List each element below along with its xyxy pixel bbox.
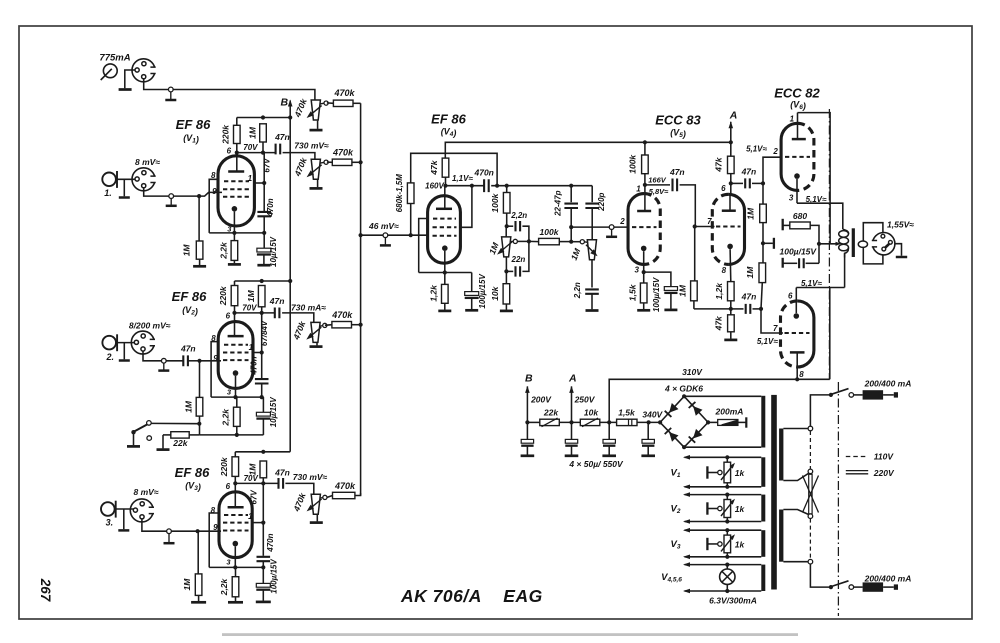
heater V2 wiper circle — [718, 506, 722, 510]
1M bottom lead V2 — [261, 307, 263, 313]
heater V1 pot arrowhead — [730, 463, 735, 469]
output node T-bar wire — [763, 242, 773, 244]
svg-text:680k-1,5M: 680k-1,5M — [395, 174, 404, 213]
grid input wire V3 — [198, 530, 221, 532]
bridge left vertex — [658, 420, 662, 424]
wire wiper P1 to R 470k — [327, 102, 334, 104]
tap3 wire — [783, 510, 808, 515]
470k V3 to bus — [355, 493, 361, 496]
220k top lead V2 — [234, 281, 236, 286]
junction g2 V2 — [260, 350, 264, 354]
psu chain 1.5k-bridge — [637, 421, 660, 423]
svg-text:7: 7 — [773, 324, 778, 333]
svg-text:2,2k: 2,2k — [218, 241, 228, 260]
heater V2 bottom wire — [685, 521, 762, 523]
svg-text:1: 1 — [249, 343, 254, 352]
100k top lead — [506, 186, 508, 193]
tap1 wire — [783, 428, 808, 430]
svg-text:1: 1 — [790, 114, 795, 123]
g2 riser V1 — [254, 182, 264, 184]
junction g2 V1 — [262, 181, 266, 185]
svg-text:A: A — [729, 109, 738, 121]
svg-text:B: B — [281, 96, 289, 108]
grid input wire V1 — [199, 192, 222, 196]
resistor 680 — [790, 222, 810, 229]
cathode lead V6b — [795, 288, 797, 314]
chassis boundary upper — [828, 109, 830, 379]
resistor 1M V3 — [260, 461, 267, 478]
1M V6a bottom lead — [762, 223, 764, 244]
resistor 470k (V1 lower) — [332, 159, 352, 165]
47n to grid V2 — [188, 360, 200, 362]
heater V3 wiper circle — [718, 542, 722, 546]
junction 2.2k bottom V2 — [235, 433, 239, 437]
svg-text:1k: 1k — [735, 504, 746, 514]
220k top lead V3 — [234, 452, 236, 457]
heater V3 pot arrow — [721, 536, 734, 552]
jack symbol input 1 — [102, 171, 117, 188]
ground below P3 — [310, 345, 323, 348]
wiper wire volume pot — [571, 241, 580, 243]
heater V2 pot arrowhead — [730, 499, 735, 505]
resistor 470k (V3) — [333, 492, 355, 498]
wiper of 1M pot — [513, 239, 517, 243]
junction cathode/2.2k V1 — [232, 231, 236, 235]
svg-text:730 mV≈: 730 mV≈ — [293, 472, 328, 482]
680k bottom lead — [410, 204, 412, 236]
cathode lead V5b — [729, 249, 732, 281]
heater V1 pot arrow — [721, 465, 734, 481]
ground below jack 3 — [118, 529, 129, 532]
ground below 10k — [500, 310, 513, 313]
tube V5b ECC83 (dashed left) — [712, 194, 744, 264]
2.2k bottom lead V2 — [236, 426, 238, 435]
P3 bottom to ground — [316, 343, 318, 346]
junction 1M top V2 — [260, 279, 264, 283]
ground below 100u V3 — [256, 601, 271, 604]
22k right lead — [189, 434, 199, 436]
resistor 47k V4 anode — [442, 158, 449, 177]
svg-text:2,2k: 2,2k — [220, 408, 230, 427]
chassis boundary lower — [837, 382, 839, 616]
arrowhead B bus — [288, 100, 293, 107]
arrow of 1M pot — [500, 242, 512, 253]
220k bottom lead V3 — [234, 476, 236, 483]
svg-text:1M: 1M — [247, 126, 257, 139]
svg-text:1M: 1M — [745, 266, 755, 279]
svg-text:67/84V: 67/84V — [260, 320, 269, 346]
heater V3 pot bottom junction — [725, 555, 729, 559]
arrow of P4 — [309, 499, 321, 509]
svg-text:100µ/15V: 100µ/15V — [269, 559, 278, 594]
2.2k top lead V3 — [235, 567, 237, 576]
1M V6a top lead — [762, 183, 764, 204]
svg-text:680: 680 — [793, 211, 807, 221]
g2 riser V4 — [460, 186, 472, 228]
resistor 220k V2 — [231, 286, 238, 306]
svg-text:8: 8 — [799, 370, 804, 379]
B+ riser to output stage — [829, 288, 831, 380]
arrowhead P1 — [307, 111, 314, 118]
junction grid 1M V3 — [196, 529, 200, 533]
fb wire to 680 — [783, 224, 790, 226]
svg-text:220k: 220k — [218, 285, 228, 306]
svg-text:70V: 70V — [242, 303, 257, 312]
svg-text:166V: 166V — [648, 176, 667, 185]
ground below 22k — [157, 448, 170, 451]
wiper P3 to 470k — [325, 324, 332, 327]
heater V1 wiper circle — [718, 470, 722, 474]
heater V2 top arrow — [683, 492, 690, 497]
mains cord bottom — [883, 586, 894, 588]
1M grid lead V3 — [197, 531, 199, 574]
g2 vertical V3 (67V) — [262, 483, 264, 555]
pin6 lead V5b — [729, 194, 731, 210]
ground below output DIN — [896, 256, 907, 259]
resistor 220k V1 — [234, 125, 241, 143]
wiper stem P3 — [319, 325, 323, 328]
100k-h right lead — [559, 241, 571, 243]
junction anode node 220k V3 — [233, 481, 237, 485]
junction anode V5b — [729, 181, 733, 185]
junction anode node/1M — [261, 151, 265, 155]
junction V6b anode/310V bus — [795, 377, 799, 381]
pin 6 lead V2 — [234, 313, 236, 336]
psu filter cap 4 50u/550V — [642, 439, 654, 445]
V1 supply wire — [237, 117, 290, 119]
arrow of P2 — [309, 165, 321, 175]
junction g2 riser V4 — [470, 184, 474, 188]
P4 bottom to ground — [316, 515, 318, 522]
capacitor 47n V1 out — [276, 144, 281, 155]
cathode lead V5a — [643, 251, 645, 272]
svg-text:6: 6 — [788, 292, 793, 301]
secondary top lead — [863, 223, 883, 242]
anode of V2 — [228, 335, 244, 338]
1M V5b bottom lead — [693, 301, 695, 309]
svg-text:3: 3 — [634, 265, 639, 274]
capacitor 470n coupling V4 — [484, 179, 489, 192]
junction cathode V5a — [642, 270, 646, 274]
heater V456 top arrow — [683, 562, 690, 567]
svg-text:200/400 mA: 200/400 mA — [864, 379, 912, 389]
svg-text:EF 86: EF 86 — [431, 112, 466, 127]
mains switch lever bottom — [831, 581, 848, 587]
output DIN pin top — [881, 234, 885, 238]
310V bus — [609, 379, 830, 422]
svg-text:100µ/15V: 100µ/15V — [478, 274, 487, 309]
lamp bottom junction — [725, 589, 729, 593]
g3 bracket V1 — [209, 179, 218, 233]
legend 110V dashed — [846, 456, 868, 458]
g3 bracket V3 — [209, 513, 219, 567]
g2 riser V2 — [253, 352, 262, 354]
grid row V6b — [785, 332, 810, 334]
capacitor 10u/15V V1 — [257, 248, 271, 254]
junction cathode V5b — [729, 307, 733, 311]
resistor 1M grid V2 — [196, 397, 203, 416]
470n bottom lead V2 — [261, 384, 263, 398]
grid g1 row V2 — [224, 344, 248, 346]
pin 6 lead V4 — [444, 186, 446, 209]
1M pot bottom lead — [505, 257, 507, 272]
psu chain 22k-10k — [559, 421, 580, 423]
wire V1 output to P2 — [283, 153, 315, 160]
switch wire to junction — [151, 422, 199, 424]
100u bottom lead V4 — [471, 298, 473, 309]
svg-text:470n: 470n — [266, 533, 275, 552]
heater V2 wiper wire — [708, 508, 718, 510]
junction supply A / 47k V5b — [729, 140, 733, 144]
svg-text:ECC 83: ECC 83 — [655, 113, 701, 128]
resistor 680k-1.5M — [407, 183, 414, 204]
ground below psu cap 2 — [565, 454, 579, 457]
47k V5b top lead — [730, 142, 732, 156]
10k bottom lead — [505, 304, 507, 310]
470n to grid node V5a wire — [491, 185, 592, 187]
mains switch lever top — [831, 389, 848, 395]
svg-text:67V: 67V — [262, 158, 271, 173]
HV winding terminal bar — [745, 417, 747, 427]
capacitor 470n V1 — [257, 212, 271, 216]
V3 supply wire — [235, 451, 290, 453]
svg-text:3.: 3. — [106, 518, 114, 528]
47k V5b bottom lead — [730, 174, 732, 195]
svg-text:100k: 100k — [628, 154, 638, 174]
psu cap 3 bottom lead — [608, 446, 610, 455]
pin 6 lead V3 — [234, 483, 236, 507]
junction anode node 1M V3 — [261, 481, 265, 485]
svg-text:22n: 22n — [511, 255, 526, 264]
470k V2 to bus — [352, 324, 361, 326]
resistor 47k V5b anode — [728, 156, 735, 173]
heater V1 pot bottom junction — [725, 485, 729, 489]
pin8 lead V6b — [796, 352, 798, 379]
mains fuse bottom — [863, 582, 884, 591]
svg-text:730 mV≈: 730 mV≈ — [294, 140, 329, 150]
svg-text:8: 8 — [211, 506, 216, 515]
resistor 100k V5a anode — [642, 155, 649, 174]
psu cap 3 top lead — [608, 422, 610, 439]
grid g3 row V1 — [223, 196, 250, 198]
cathode lead V6a — [796, 179, 798, 203]
svg-text:70V: 70V — [244, 474, 259, 483]
junction 100k top — [505, 184, 509, 188]
junction 100k/2.2n — [505, 224, 509, 228]
potentiometer 1M (treble) — [502, 237, 511, 257]
junction cathode/10u V1 — [262, 231, 266, 235]
svg-text:47n: 47n — [269, 296, 285, 306]
chassis point 46mV — [380, 233, 391, 246]
svg-text:B: B — [525, 372, 533, 384]
jack ground leg 3 — [123, 509, 125, 529]
junction fb node — [817, 242, 821, 246]
capacitor 22-47p trimmer — [564, 204, 578, 208]
junction anode V5a — [643, 183, 647, 187]
1.2k bottom lead V4 — [444, 303, 446, 309]
switch contact (closed) V2 — [147, 421, 152, 426]
bridge bottom vertex — [682, 445, 686, 449]
svg-text:340V: 340V — [642, 409, 663, 419]
wire wiper P2 to R — [327, 161, 332, 163]
junction mix bus / 470k V1b — [359, 160, 363, 164]
svg-text:730 mA≈: 730 mA≈ — [291, 303, 326, 313]
svg-text:2: 2 — [772, 147, 778, 156]
svg-text:470n: 470n — [249, 356, 258, 375]
g2 vertical V2 (67/84V) — [261, 313, 263, 378]
heater V3 pot arrowhead — [730, 534, 735, 540]
secondary bottom lead — [863, 247, 883, 264]
1.2k top lead V4 — [444, 273, 446, 285]
svg-text:(V6): (V6) — [790, 100, 806, 112]
tap selector dashed upper — [809, 431, 811, 469]
g2 vertical V1 (67V) — [263, 153, 265, 211]
potentiometer P3 470k (V2) — [311, 322, 320, 342]
primary tap circle y=516.2 — [808, 514, 813, 519]
junction B psu — [525, 420, 529, 424]
100u V5a branch — [644, 272, 671, 286]
anode of V1 — [228, 170, 244, 173]
svg-text:1k: 1k — [735, 468, 746, 478]
2.2n left lead — [507, 225, 514, 227]
svg-text:200V: 200V — [530, 395, 552, 405]
chassis point input 2 — [158, 358, 169, 370]
mains switch contact top — [849, 393, 854, 398]
220k bottom lead V2 — [234, 306, 236, 313]
chassis point input 1 — [166, 194, 177, 206]
junction 47n fb/1M — [759, 307, 763, 311]
V6b grid wire — [761, 309, 783, 333]
ground below 1.2k V4 — [438, 310, 451, 313]
wire X0 left pin to ground — [125, 70, 135, 88]
1M bottom lead — [262, 142, 264, 153]
junction output node — [761, 241, 765, 245]
heater V2 pot arrow — [721, 501, 734, 517]
10k top lead — [505, 271, 507, 283]
anode of V3 — [228, 506, 244, 509]
2.2n lower bottom lead — [591, 294, 593, 309]
tube V5a ECC83 (solid left) — [628, 194, 660, 265]
tube V3 EF86 — [219, 492, 252, 558]
bridge top to transformer — [684, 395, 761, 397]
anode of V5a — [637, 210, 651, 213]
svg-text:110V: 110V — [874, 452, 895, 462]
svg-text:EF 86: EF 86 — [172, 289, 207, 304]
ground below 2.2n lower — [586, 309, 599, 312]
svg-text:100k: 100k — [490, 192, 500, 212]
heater V2 pot top lead — [726, 495, 728, 500]
10u bottom lead V2 — [262, 419, 264, 435]
capacitor 2.2n — [516, 221, 521, 231]
heater V2 pot bottom junction — [725, 519, 729, 523]
anode of V6a — [792, 138, 806, 141]
47k V5b cathode top lead — [730, 309, 732, 315]
svg-text:2.: 2. — [106, 352, 115, 362]
tube V2 EF86 — [218, 322, 253, 389]
V6a anode top wire — [798, 113, 831, 244]
svg-text:ECC 82: ECC 82 — [774, 85, 820, 100]
47n to V6a grid node — [752, 182, 763, 184]
ground below 100u V4 — [465, 309, 478, 312]
heater V2 pot bottom lead — [726, 518, 728, 522]
junction trimmer/grid wire — [569, 225, 573, 229]
220k bottom lead — [236, 144, 238, 153]
heater V3 pot bottom lead — [726, 553, 728, 557]
selector cross 1 — [803, 476, 819, 513]
220k top lead — [236, 118, 238, 126]
output DIN pin right — [889, 240, 893, 244]
jack symbol input 2 — [102, 334, 117, 351]
1M grid bottom lead V2 — [199, 416, 201, 435]
1M volume bottom lead — [591, 260, 593, 288]
grid wire V5a — [571, 226, 629, 228]
47k V5b cathode bottom lead — [730, 332, 732, 339]
svg-text:8/200 mV≈: 8/200 mV≈ — [129, 321, 171, 331]
ground below 1M grid V3 — [191, 601, 206, 604]
A arrow stem — [730, 122, 732, 143]
power transformer secondary bars — [761, 396, 765, 448]
potentiometer P2 470k — [311, 159, 320, 179]
svg-text:470k: 470k — [332, 147, 354, 157]
junction 1M top V1 — [261, 115, 265, 119]
V2 anode node wire — [235, 312, 275, 314]
meter M1 — [101, 64, 118, 80]
svg-text:70V: 70V — [243, 143, 258, 152]
mains wire to fuse bottom — [854, 586, 863, 588]
wiper stem P1 — [320, 102, 325, 105]
1M pot top lead — [505, 226, 507, 237]
heater V456 top wire — [685, 564, 762, 566]
10u bottom lead V1 — [263, 255, 265, 264]
heater V1 top wire — [685, 456, 762, 458]
cathode dot V5b — [727, 244, 733, 250]
svg-text:10k: 10k — [490, 285, 500, 300]
pin1 lead V6a — [797, 113, 799, 140]
10u top lead V2 — [262, 397, 264, 412]
resistor 1.2k V4 — [442, 284, 449, 303]
svg-text:AK 706/A EAG: AK 706/A EAG — [400, 586, 543, 606]
heater V3 pot top lead — [726, 530, 728, 535]
resistor 470k (V1 upper) — [333, 100, 353, 106]
arrow of P3 — [309, 327, 321, 337]
svg-text:220V: 220V — [873, 468, 895, 478]
V1 anode node wire — [237, 152, 276, 154]
grid g3 row V2 — [223, 359, 249, 361]
junction cathode 2.2k V2 — [233, 395, 237, 399]
cathode dot V2 — [233, 370, 239, 376]
junction supply 100k V5a — [643, 140, 647, 144]
output DIN shorting link — [885, 243, 890, 248]
grid row V6a — [785, 156, 810, 158]
P1 bottom to ground — [317, 121, 319, 129]
heater V2 top wire — [685, 494, 762, 496]
junction 1M top V3 — [261, 450, 265, 454]
V6a grid wire — [763, 157, 782, 183]
cathode lead V3 — [234, 546, 236, 567]
mixing bus vertical — [360, 103, 362, 495]
B bus vertical — [289, 101, 291, 452]
pin 6 lead V1 — [236, 153, 238, 172]
svg-text:1: 1 — [248, 512, 253, 521]
mains cord end bottom — [894, 584, 898, 589]
wiper of P1 — [324, 101, 328, 105]
resistor 1M grid V1 — [196, 241, 203, 259]
svg-text:6: 6 — [227, 146, 232, 155]
ground below 2.2k V3 — [228, 601, 243, 604]
svg-text:100µ/15V: 100µ/15V — [780, 246, 818, 256]
capacitor 470n V3 — [257, 557, 271, 561]
svg-text:1,2k: 1,2k — [428, 284, 438, 302]
